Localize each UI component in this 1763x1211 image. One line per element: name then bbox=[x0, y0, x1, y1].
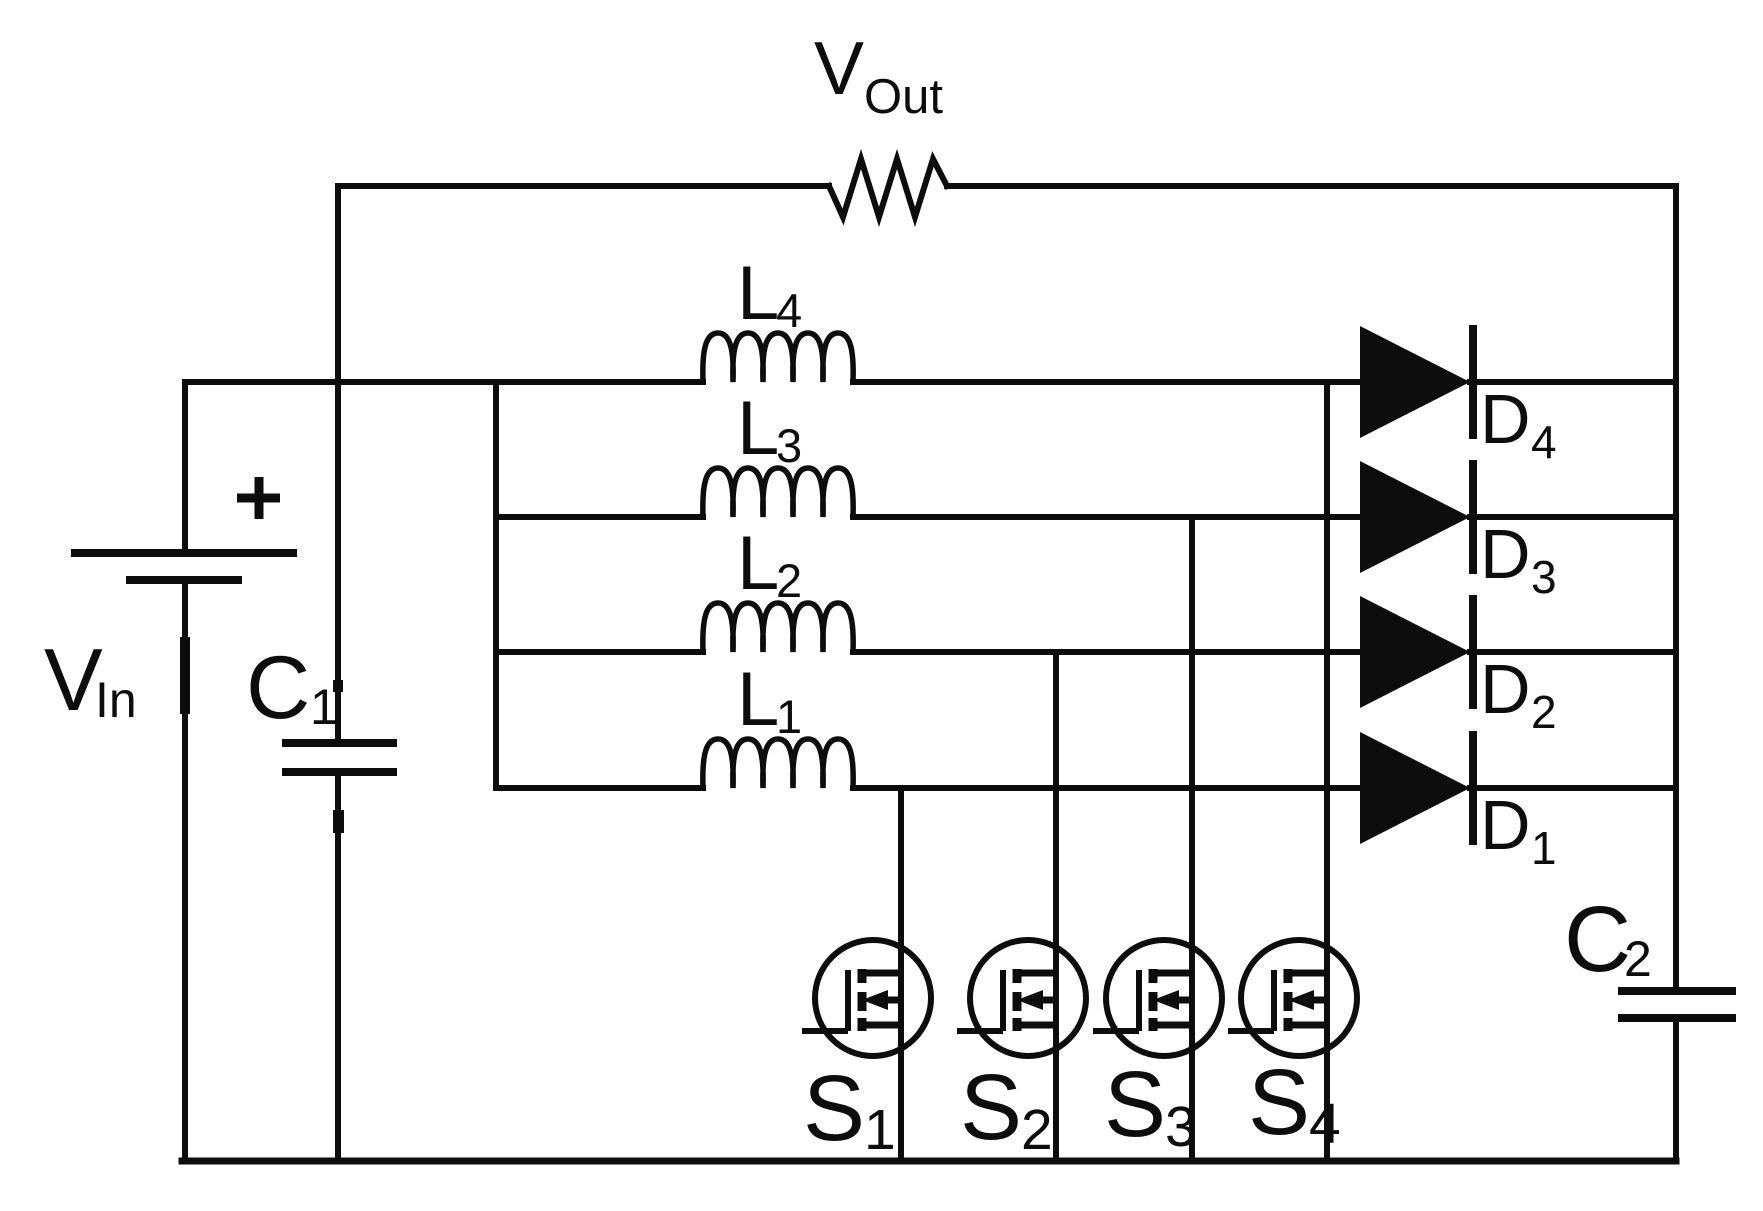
diode D4 bbox=[1360, 325, 1473, 439]
mosfet S1 bbox=[802, 940, 931, 1056]
label V_In bbox=[44, 630, 137, 729]
svg-text:2: 2 bbox=[776, 554, 802, 607]
wire row4 middle segment bbox=[853, 379, 1364, 385]
wire row3 left lead bbox=[496, 514, 703, 520]
wire node A vertical bbox=[493, 382, 499, 788]
wire row3 right segment bbox=[1470, 514, 1676, 520]
svg-text:L: L bbox=[737, 657, 779, 742]
label L4 bbox=[737, 251, 802, 337]
diode D3 bbox=[1360, 460, 1473, 574]
svg-text:S: S bbox=[1248, 1050, 1310, 1154]
svg-text:In: In bbox=[95, 672, 137, 728]
inductor L3 bbox=[703, 468, 853, 517]
svg-text:D: D bbox=[1480, 380, 1531, 458]
label L3 bbox=[737, 386, 802, 472]
wire S2 drain-source vertical bbox=[1053, 652, 1059, 1161]
mosfet S2 bbox=[957, 940, 1086, 1056]
wire right rail upper bbox=[1673, 186, 1679, 991]
svg-text:1: 1 bbox=[310, 679, 338, 735]
resistor Vout load bbox=[829, 159, 947, 217]
svg-text:1: 1 bbox=[776, 690, 802, 743]
svg-text:4: 4 bbox=[1531, 416, 1557, 468]
label S4 bbox=[1248, 1050, 1341, 1156]
label D2 bbox=[1480, 650, 1557, 738]
svg-text:S: S bbox=[803, 1056, 865, 1160]
wire row1 middle segment bbox=[853, 785, 1364, 791]
battery V_In plates bbox=[71, 553, 297, 580]
svg-text:C: C bbox=[1564, 887, 1631, 991]
inductor L4 bbox=[703, 333, 853, 382]
label S1 bbox=[803, 1056, 896, 1162]
inductor L2 bbox=[703, 603, 853, 652]
capacitor C2 plates bbox=[1618, 991, 1736, 1018]
wire row4 left lead bbox=[185, 379, 703, 385]
label C2 bbox=[1564, 887, 1652, 991]
wire right rail lower bbox=[1673, 1018, 1679, 1161]
wire row2 middle segment bbox=[853, 649, 1364, 655]
wire battery column upper bbox=[182, 382, 188, 551]
inductor L1 bbox=[703, 739, 853, 788]
C1 wire tick upper bbox=[333, 680, 343, 692]
label S2 bbox=[960, 1055, 1053, 1162]
svg-text:Out: Out bbox=[864, 70, 943, 124]
wire C1 column lower bbox=[335, 774, 341, 1161]
label C1 bbox=[246, 637, 338, 737]
svg-text:2: 2 bbox=[1531, 686, 1557, 738]
wire row2 right segment bbox=[1470, 649, 1676, 655]
wire top rail left segment bbox=[340, 183, 829, 189]
svg-text:2: 2 bbox=[1624, 931, 1652, 987]
battery wire tick bbox=[180, 637, 190, 714]
wire S3 drain-source vertical bbox=[1189, 517, 1195, 1161]
svg-text:2: 2 bbox=[1021, 1098, 1053, 1162]
wire S1 drain-source vertical bbox=[898, 788, 904, 1161]
wire C1 column upper bbox=[335, 186, 341, 741]
svg-text:4: 4 bbox=[1309, 1092, 1341, 1156]
svg-text:D: D bbox=[1480, 786, 1531, 864]
diode D1 bbox=[1360, 731, 1473, 845]
label L2 bbox=[737, 521, 802, 607]
mosfet S4 bbox=[1228, 940, 1357, 1056]
wire S4 drain-source vertical bbox=[1324, 382, 1330, 1161]
svg-text:L: L bbox=[737, 521, 779, 606]
svg-text:S: S bbox=[960, 1055, 1022, 1159]
svg-text:D: D bbox=[1480, 650, 1531, 728]
capacitor C1 plates bbox=[282, 743, 397, 772]
wire row3 middle segment bbox=[853, 514, 1364, 520]
label L1 bbox=[737, 657, 802, 743]
wire bottom rail bbox=[182, 1158, 1676, 1165]
svg-text:L: L bbox=[737, 386, 779, 471]
label D4 bbox=[1480, 380, 1557, 468]
diode D2 bbox=[1360, 595, 1473, 709]
svg-text:C: C bbox=[246, 637, 310, 737]
svg-text:3: 3 bbox=[1165, 1095, 1197, 1159]
svg-text:4: 4 bbox=[776, 284, 802, 337]
wire battery column lower bbox=[182, 584, 188, 1161]
svg-text:1: 1 bbox=[1531, 822, 1557, 874]
battery plus sign bbox=[237, 477, 280, 519]
wire top rail right segment bbox=[947, 183, 1676, 189]
wire row2 left lead bbox=[496, 649, 703, 655]
svg-text:3: 3 bbox=[1531, 551, 1557, 603]
wire row1 right segment bbox=[1470, 785, 1676, 791]
label D1 bbox=[1480, 786, 1557, 874]
svg-text:V: V bbox=[814, 26, 864, 110]
wire row1 left lead bbox=[496, 785, 703, 791]
label S3 bbox=[1104, 1052, 1197, 1159]
svg-text:D: D bbox=[1480, 515, 1531, 593]
svg-text:L: L bbox=[737, 251, 779, 336]
svg-text:3: 3 bbox=[776, 419, 802, 472]
C1 wire tick lower bbox=[333, 810, 344, 833]
label D3 bbox=[1480, 515, 1557, 603]
svg-text:1: 1 bbox=[864, 1098, 896, 1162]
mosfet S3 bbox=[1093, 940, 1222, 1056]
wire row4 right segment bbox=[1470, 379, 1676, 385]
label V_Out bbox=[814, 26, 943, 124]
svg-text:S: S bbox=[1104, 1052, 1166, 1156]
